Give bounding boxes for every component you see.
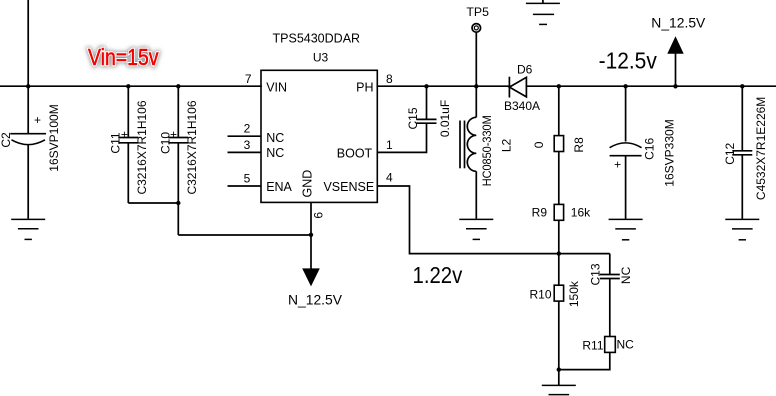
wire VSENSE net [377, 186, 610, 254]
capacitor C16 [610, 87, 642, 219]
svg-text:C3216X7R1H106: C3216X7R1H106 [185, 100, 199, 194]
svg-text:-12.5v: -12.5v [599, 47, 658, 73]
svg-text:R9: R9 [532, 206, 548, 220]
svg-text:BOOT: BOOT [337, 146, 373, 160]
capacitor C12 [732, 87, 752, 219]
svg-text:16SVP330M: 16SVP330M [663, 119, 677, 186]
power port N_12.5V (up arrow) [675, 53, 677, 86]
svg-text:0.01uF: 0.01uF [438, 100, 452, 137]
svg-text:R10: R10 [529, 287, 551, 301]
capacitor C10 [168, 87, 188, 235]
capacitor C11 [118, 87, 138, 203]
svg-text:6: 6 [312, 212, 326, 219]
pin 2 NC [228, 135, 262, 137]
capacitor C2 [10, 87, 46, 219]
svg-text:HC0850-330M: HC0850-330M [480, 115, 494, 186]
svg-text:C3216X7R1H106: C3216X7R1H106 [135, 100, 149, 194]
wire C11 bottom rail [128, 202, 178, 204]
svg-text:NC: NC [617, 337, 635, 351]
capacitor C13 [600, 254, 620, 337]
capacitor C15 [377, 87, 436, 152]
svg-text:1: 1 [386, 138, 393, 152]
svg-text:C2: C2 [0, 132, 13, 148]
svg-text:Vin=15v: Vin=15v [88, 44, 159, 70]
svg-text:C16: C16 [642, 138, 656, 160]
resistor R11 [605, 337, 616, 353]
wire input bus [0, 85, 261, 87]
ground under C16 [609, 219, 643, 239]
svg-text:4: 4 [386, 170, 393, 184]
svg-text:C10: C10 [158, 132, 172, 154]
ground bottom [558, 370, 560, 386]
svg-text:150k: 150k [567, 280, 581, 307]
svg-text:NC: NC [266, 146, 284, 160]
svg-text:16k: 16k [571, 206, 591, 220]
resistor R8 [558, 87, 560, 136]
svg-text:L2: L2 [500, 139, 514, 153]
svg-text:16SVP100M: 16SVP100M [47, 104, 61, 171]
svg-text:ENA: ENA [266, 180, 292, 194]
resistor R9 [558, 152, 560, 205]
svg-text:5: 5 [244, 171, 251, 185]
svg-text:3: 3 [244, 138, 251, 152]
svg-text:PH: PH [356, 80, 373, 94]
ground top center [526, 0, 560, 24]
wire pin6 drop [310, 202, 312, 269]
svg-text:1.22v: 1.22v [413, 262, 463, 288]
wire output net [526, 85, 776, 87]
test point TP5 [472, 24, 481, 33]
svg-text:VSENSE: VSENSE [323, 180, 374, 194]
svg-text:0: 0 [532, 141, 546, 148]
svg-text:GND: GND [301, 170, 315, 198]
ground under L2 [459, 219, 493, 239]
ground under C2 [11, 219, 45, 239]
power port N_12.5V (down arrow) [302, 268, 320, 286]
svg-text:+: + [614, 157, 621, 171]
op-amp U3 chip body [261, 70, 377, 202]
resistor R10 [558, 254, 560, 286]
svg-text:NC: NC [266, 131, 284, 145]
svg-text:C4532X7R1E226M: C4532X7R1E226M [754, 97, 768, 200]
svg-text:C12: C12 [723, 142, 737, 164]
svg-text:NC: NC [619, 266, 633, 284]
svg-text:N_12.5V: N_12.5V [288, 293, 342, 308]
svg-text:8: 8 [386, 72, 393, 86]
wire PH net [377, 85, 509, 87]
svg-text:B340A: B340A [504, 99, 540, 113]
ground under C12 [725, 219, 759, 239]
svg-text:N_12.5V: N_12.5V [651, 16, 705, 31]
svg-text:U3: U3 [313, 51, 329, 65]
svg-text:TP5: TP5 [466, 5, 489, 19]
svg-text:R11: R11 [582, 338, 603, 352]
svg-text:TPS5430DDAR: TPS5430DDAR [273, 31, 361, 45]
pin 3 NC [228, 151, 262, 153]
svg-text:C15: C15 [406, 107, 420, 129]
svg-text:VIN: VIN [266, 80, 287, 94]
svg-text:+: + [34, 113, 41, 127]
svg-text:7: 7 [245, 72, 252, 86]
wire input vertical from top [27, 0, 29, 86]
pin 5 ENA [228, 185, 262, 187]
svg-text:2: 2 [244, 122, 251, 136]
wire gnd-net rail to pin6 [178, 234, 311, 236]
svg-text:R8: R8 [572, 137, 586, 153]
inductor L2 [460, 87, 476, 219]
svg-text:C11: C11 [109, 132, 123, 153]
diode D6 [509, 77, 526, 98]
svg-text:C13: C13 [589, 263, 603, 285]
svg-text:D6: D6 [517, 63, 533, 77]
